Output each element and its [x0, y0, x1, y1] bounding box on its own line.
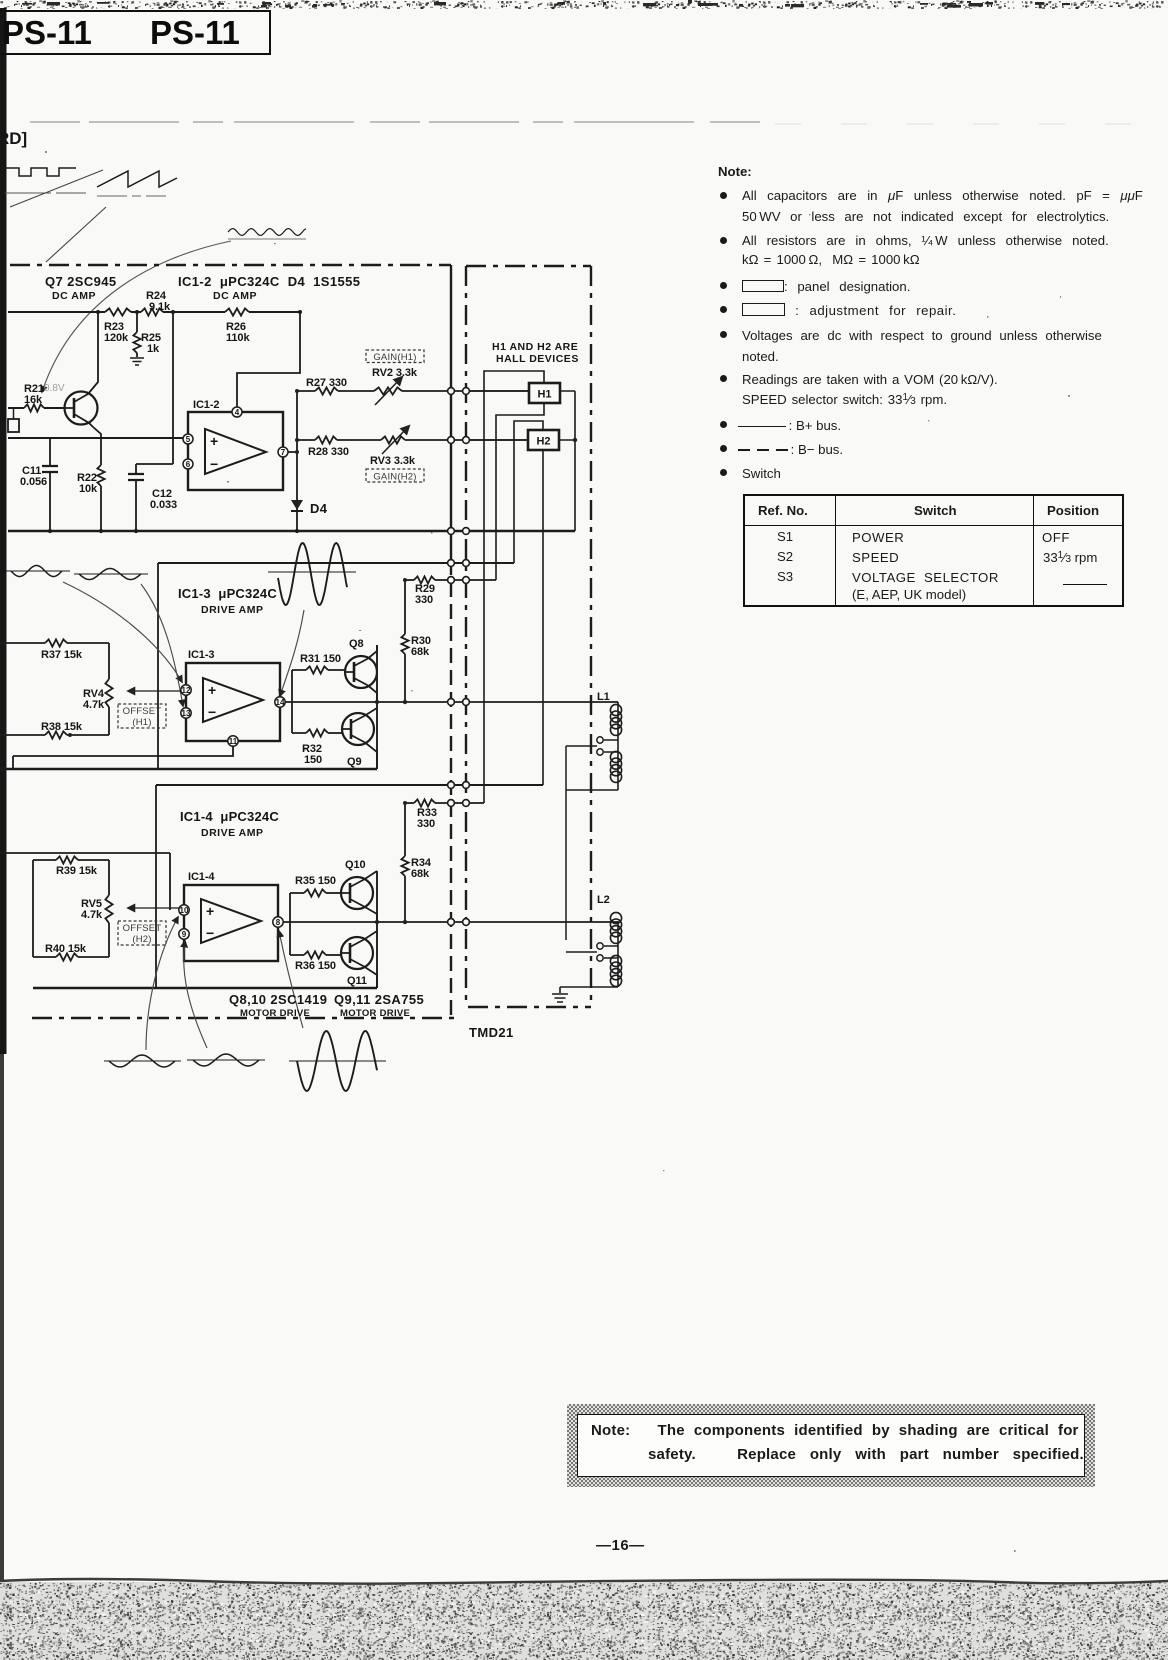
svg-text:OFFSET: OFFSET [123, 706, 162, 717]
svg-text:Q9,11 2SA755: Q9,11 2SA755 [334, 992, 424, 1007]
svg-text:6: 6 [186, 460, 191, 469]
svg-text:14: 14 [276, 698, 285, 707]
svg-text:4: 4 [235, 408, 240, 417]
svg-text:68k: 68k [411, 868, 430, 880]
svg-text:10: 10 [180, 906, 189, 915]
svg-text:L1: L1 [597, 691, 610, 703]
svg-text:110k: 110k [226, 332, 250, 344]
svg-text:−: − [206, 925, 214, 941]
svg-text:R37 15k: R37 15k [41, 649, 83, 661]
svg-text:9: 9 [182, 930, 187, 939]
svg-text:0.056: 0.056 [20, 476, 47, 488]
svg-text:Q11: Q11 [347, 975, 367, 987]
svg-text:0.033: 0.033 [150, 499, 177, 511]
svg-text:IC1-2 μPC324C D4 1S1555: IC1-2 μPC324C D4 1S1555 [178, 274, 360, 289]
svg-text:R39 15k: R39 15k [56, 865, 98, 877]
svg-text:R36 150: R36 150 [295, 960, 336, 972]
svg-text:R38 15k: R38 15k [41, 721, 83, 733]
svg-text:R35 150: R35 150 [295, 875, 336, 887]
svg-text:9.1k: 9.1k [149, 301, 171, 313]
svg-text:IC1-4 μPC324C: IC1-4 μPC324C [180, 809, 279, 824]
svg-text:68k: 68k [411, 646, 430, 658]
svg-text:13: 13 [182, 709, 191, 718]
svg-text:4.7k: 4.7k [83, 699, 105, 711]
svg-text:IC1-3: IC1-3 [188, 649, 214, 661]
svg-text:RD]: RD] [0, 129, 27, 148]
svg-text:GAIN(H2): GAIN(H2) [373, 472, 416, 483]
svg-text:OFFSET: OFFSET [123, 923, 162, 934]
svg-text:GAIN(H1): GAIN(H1) [373, 352, 416, 363]
svg-text:Q8: Q8 [349, 638, 363, 650]
svg-text:H1: H1 [537, 389, 551, 401]
svg-text:Q7 2SC945: Q7 2SC945 [45, 274, 117, 289]
svg-text:MOTOR DRIVE: MOTOR DRIVE [240, 1008, 310, 1019]
svg-text:HALL DEVICES: HALL DEVICES [496, 353, 579, 365]
svg-text:DC AMP: DC AMP [213, 290, 257, 302]
svg-text:5: 5 [186, 435, 191, 444]
svg-text:0.8V: 0.8V [44, 383, 65, 394]
svg-text:(H1): (H1) [132, 717, 151, 728]
svg-text:R40 15k: R40 15k [45, 943, 87, 955]
svg-text:11: 11 [229, 737, 238, 746]
svg-text:330: 330 [417, 818, 435, 830]
svg-text:330: 330 [415, 594, 433, 606]
svg-text:1k: 1k [147, 343, 160, 355]
svg-text:DRIVE AMP: DRIVE AMP [201, 604, 263, 616]
svg-text:8: 8 [276, 918, 281, 927]
svg-text:7: 7 [281, 448, 286, 457]
svg-text:+: + [208, 682, 216, 698]
svg-text:H2: H2 [536, 436, 550, 448]
svg-text:−: − [210, 456, 218, 472]
svg-text:MOTOR DRIVE: MOTOR DRIVE [340, 1008, 410, 1019]
svg-text:+: + [210, 433, 218, 449]
svg-text:TMD21: TMD21 [469, 1025, 514, 1040]
svg-text:10k: 10k [79, 483, 98, 495]
svg-text:IC1-3 μPC324C: IC1-3 μPC324C [178, 586, 277, 601]
svg-text:Q8,10 2SC1419: Q8,10 2SC1419 [229, 992, 327, 1007]
svg-text:150: 150 [304, 754, 322, 766]
svg-text:IC1-4: IC1-4 [188, 871, 215, 883]
svg-text:RV2 3.3k: RV2 3.3k [372, 367, 418, 379]
svg-text:RV3 3.3k: RV3 3.3k [370, 455, 416, 467]
svg-text:(H2): (H2) [132, 934, 151, 945]
svg-text:D4: D4 [310, 501, 328, 516]
svg-text:DRIVE AMP: DRIVE AMP [201, 827, 263, 839]
svg-text:−: − [208, 704, 216, 720]
svg-text:DC AMP: DC AMP [52, 290, 96, 302]
svg-text:H1 AND H2 ARE: H1 AND H2 ARE [492, 341, 578, 353]
svg-text:12: 12 [182, 686, 191, 695]
svg-text:120k: 120k [104, 332, 129, 344]
svg-text:R28 330: R28 330 [308, 446, 349, 458]
svg-text:4.7k: 4.7k [81, 909, 103, 921]
svg-text:16k: 16k [24, 394, 43, 406]
svg-text:Q9: Q9 [347, 756, 361, 768]
svg-text:+: + [206, 903, 214, 919]
svg-text:Q10: Q10 [345, 859, 366, 871]
svg-text:L2: L2 [597, 894, 610, 906]
svg-text:R27 330: R27 330 [306, 377, 347, 389]
svg-text:R31 150: R31 150 [300, 653, 341, 665]
svg-text:IC1-2: IC1-2 [193, 399, 219, 411]
